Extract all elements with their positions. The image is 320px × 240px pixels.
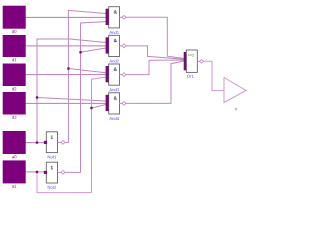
wire d3 to And4 input bbox=[26, 102, 106, 104]
wire a0 bus up to And2 top input bbox=[37, 39, 106, 143]
wire a0 junction to Not1 input bbox=[37, 142, 45, 144]
input source a0 bbox=[3, 131, 26, 158]
input source a1 bbox=[3, 160, 26, 187]
wire Not1 output na0 bus to And1 top input bbox=[64, 10, 106, 142]
wire d2 to And3 input bbox=[26, 74, 106, 76]
not gate Not2 bbox=[44, 162, 65, 189]
input source d3 bbox=[3, 92, 26, 119]
wire And1 output to Or1 input 1 bbox=[125, 17, 184, 58]
wire a0 branch to And4 top input bbox=[37, 98, 106, 102]
wire a1 junction to Not2 input bbox=[37, 171, 45, 173]
input source d1 bbox=[3, 35, 26, 61]
wire d0 to And1 input bbox=[26, 16, 106, 18]
wire And4 output to Or1 input 4 bbox=[125, 61, 184, 104]
wire na0 branch to And3 top input bbox=[68, 69, 105, 73]
and gate And4 bbox=[106, 93, 126, 120]
input source d2 bbox=[3, 64, 26, 91]
wire a1 branch to And4 bottom input bbox=[92, 105, 107, 109]
input source d0 bbox=[3, 6, 26, 33]
wire na1 branch to And2 bottom input bbox=[81, 48, 106, 52]
and gate And3 bbox=[106, 64, 126, 91]
wire a1 bus bottom route to And3 bottom input bbox=[37, 77, 106, 193]
wire Not2 output na1 bus to And1 bottom input bbox=[64, 22, 106, 173]
node junction na0 bus branch to And3 bbox=[67, 67, 69, 69]
node junction na1 bus branch to And2 bbox=[79, 51, 81, 53]
wire a0 to junction bbox=[26, 142, 37, 144]
node junction a1 line to bottom route bbox=[36, 171, 38, 173]
node junction a0 bus branch to And4 bbox=[36, 96, 38, 98]
wire And2 output to Or1 input 2 bbox=[125, 46, 184, 59]
wire a1 to junction bbox=[26, 171, 37, 173]
wire d1 to And2 input bbox=[26, 45, 106, 47]
wire And3 output to Or1 input 3 bbox=[125, 60, 184, 75]
node junction a0 line to bus bbox=[36, 141, 38, 143]
node junction a1 bus branch to And4 bbox=[90, 107, 92, 109]
and gate And1 bbox=[106, 7, 126, 34]
not gate Not1 bbox=[44, 132, 65, 159]
and gate And2 bbox=[106, 35, 126, 62]
wire Or1 output to output buffer bbox=[203, 61, 224, 90]
output buffer triangle bbox=[224, 78, 246, 111]
or gate Or1 bbox=[184, 50, 204, 78]
